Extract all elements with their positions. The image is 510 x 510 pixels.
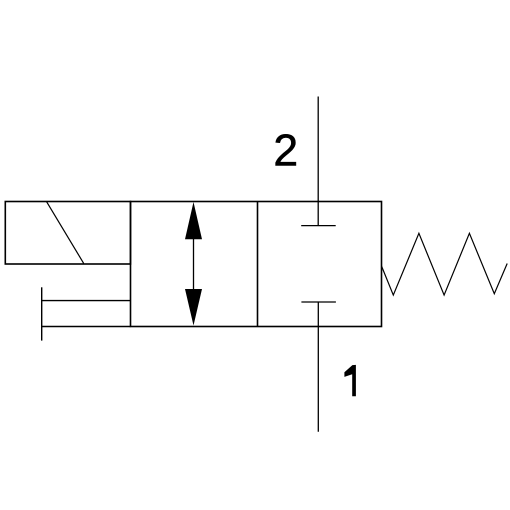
port 2 blocked seat — [301, 225, 336, 227]
position divider — [257, 202, 259, 327]
valve body outline — [131, 202, 382, 327]
pilot line lower — [42, 326, 131, 328]
port 1 line — [317, 302, 319, 432]
solenoid actuator box — [5, 202, 130, 265]
port 1 blocked seat — [301, 301, 336, 303]
svg-text:2: 2 — [273, 127, 298, 176]
pilot line upper — [42, 300, 131, 302]
arrowhead up — [185, 202, 202, 239]
return spring — [382, 233, 508, 295]
label 1 — [344, 365, 356, 396]
arrowhead down — [185, 289, 202, 326]
left terminal bar — [41, 287, 43, 340]
solenoid diagonal stroke — [47, 202, 84, 264]
double arrow shaft — [193, 238, 195, 290]
port 2 line — [317, 97, 319, 226]
